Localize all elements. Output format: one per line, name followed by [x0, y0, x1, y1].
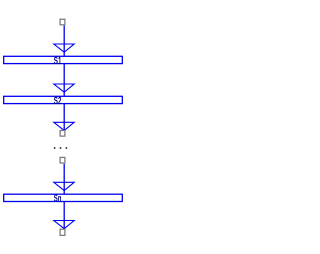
block S1	[4, 56, 123, 63]
arrow (open triangle) into S1	[54, 44, 74, 52]
ellipsis dots	[54, 147, 56, 149]
svg-text:S2: S2	[54, 96, 62, 107]
arrow (open triangle) out of S2	[54, 122, 74, 130]
block S2	[4, 96, 123, 103]
svg-text:Sn: Sn	[54, 194, 62, 205]
arrow (open triangle) into Sn	[54, 182, 74, 190]
svg-text:S1: S1	[54, 56, 62, 67]
wire	[63, 202, 65, 229]
wire	[63, 64, 65, 97]
block Sn	[4, 194, 123, 201]
wire	[63, 104, 65, 131]
wire	[63, 26, 65, 57]
terminal square P1 (top input connector)	[60, 19, 65, 25]
terminal square P4 (bottom output connector)	[60, 229, 65, 235]
terminal square P2 (output connector of first chain)	[60, 131, 65, 137]
arrow (open triangle) into S2	[54, 84, 74, 92]
arrow (open triangle) out of Sn	[54, 221, 74, 229]
wire	[63, 164, 65, 194]
terminal square P3 (input connector of last stage)	[60, 157, 65, 163]
